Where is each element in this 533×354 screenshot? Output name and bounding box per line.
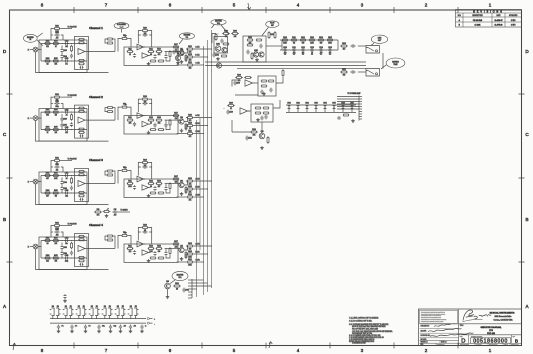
svg-text:CR31: CR31 [296,102,300,104]
wire mid risers [61,46,63,49]
svg-text:.047: .047 [114,215,117,217]
svg-text:C301: C301 [185,290,189,292]
wire send 1 [184,118,187,122]
svg-text:LINE: LINE [378,38,382,40]
svg-text:NOTES: UNLESS OTHERWISE NOTED: NOTES: UNLESS OTHERWISE NOTED [349,341,374,343]
svg-text:2K2: 2K2 [189,59,192,61]
capacitor C51 [70,325,73,330]
capacitor C231 [269,88,272,93]
svg-text:.022: .022 [123,326,126,328]
callout pointer lines [37,33,43,37]
input callout oval INPUT 1 [23,34,37,42]
op-amp stage box U1A [75,37,89,70]
stray pen mark top [248,3,252,10]
resistor R90 [181,48,183,49]
svg-text:22K: 22K [189,183,192,185]
resistor R235 [267,80,270,82]
ground G202 [255,58,259,61]
signature scribble 1 [434,324,451,326]
svg-text:47K: 47K [189,199,192,201]
title box divider [459,323,522,325]
svg-text:47u: 47u [88,326,90,328]
resistor R418 [185,251,187,252]
svg-text:J51: J51 [70,306,72,308]
svg-text:TO FOOTSW: TO FOOTSW [68,224,78,226]
svg-text:.022: .022 [65,46,68,48]
wire stage1 to stage2 [87,119,115,121]
capacitor C50 [57,325,60,330]
wire pot left [118,171,121,184]
svg-text:THE REQUIRED PORTIONS INFORMAT: THE REQUIRED PORTIONS INFORMATION OF [421,310,445,313]
wire stack mid [51,103,53,105]
svg-text:4K7: 4K7 [46,178,49,180]
ground G90 [176,61,180,64]
capacitor C220 [350,44,355,47]
ground G80 [105,214,109,217]
jack pair J43 [89,308,93,316]
capacitor C306 [80,198,84,201]
svg-text:C405: C405 [65,255,69,257]
wire stage1 to stage2 [87,51,115,53]
svg-text:REVISIONS: REVISIONS [473,12,504,14]
svg-text:B-CH1: B-CH1 [195,55,199,57]
svg-text:Channel 2: Channel 2 [89,95,103,99]
transistor Q201b [222,47,227,52]
svg-text:10K: 10K [54,63,57,65]
svg-text:SCA: SCA [458,14,461,17]
svg-text:IN: IN [28,50,30,52]
wire send 1 [184,246,187,250]
resistor R223 [106,111,109,113]
svg-text:DESCRIPTION: DESCRIPTION [472,15,482,17]
svg-text:1K: 1K [129,54,131,56]
capacitor C409 [153,251,156,256]
wire channel 1 send 1 to bus [194,48,212,50]
resistor R201 [215,33,217,34]
wire send 3 [177,64,187,66]
resistor R202b [222,43,225,45]
bus line 5 [199,118,201,250]
svg-text:DATE 2.2: DATE 2.2 [441,340,447,343]
wire stage2 internals [165,183,178,185]
transistor Q203 [216,63,221,68]
wire stack mid [51,166,53,168]
capacitor C55 [119,325,122,330]
resistor R309 [78,195,79,197]
jack pair J43 drops [91,316,93,319]
svg-text:100K: 100K [283,42,287,44]
op-amp U3B [137,176,144,182]
wire feedback cap [138,166,141,168]
wire pot right [128,39,131,48]
stray pen mark bottom middle [269,342,272,349]
bus bottom links [196,296,198,298]
wire to footswitch [61,225,72,227]
svg-text:22K: 22K [158,123,161,125]
resistor R208 [246,44,249,46]
wire jack2 [358,71,366,73]
svg-text:C-CH2: C-CH2 [195,131,199,133]
capacitor C54 [109,325,112,330]
svg-text:C403: C403 [63,247,67,249]
capacitor C53 [97,325,100,330]
svg-text:.047: .047 [56,38,59,40]
svg-text:C205: C205 [65,127,69,129]
jack pair J44 drops [104,316,106,319]
svg-text:1K: 1K [230,108,232,110]
capacitor C411 [70,251,73,256]
svg-text:2K2: 2K2 [46,46,49,48]
svg-text:A-CH3: A-CH3 [195,178,199,181]
ground G2 [180,192,184,195]
ground G52 [84,329,88,332]
op-amp U1C [142,53,149,58]
capacitor C111 [70,54,73,59]
wire feedback loop left [138,99,141,112]
resistor R243 [254,112,257,114]
oval FOOTSWITCH pointer [262,27,269,35]
svg-text:-: - [154,323,155,325]
op-amp stage box U4A [75,234,89,267]
capacitor C60 footswitch [63,294,66,299]
resistor R118 [185,54,187,55]
wire reverb row 2 [280,49,338,51]
svg-text:APPROVED BY:: APPROVED BY: [421,334,431,337]
diode CR31 [297,106,300,109]
svg-text:J52: J52 [83,306,85,308]
resistor R409 [78,260,79,262]
bottom row wire lower [50,322,146,324]
svg-text:7: 7 [105,3,108,8]
zone ticks left [7,94,13,262]
approved by row [420,332,459,334]
jack pair J46 drops [130,316,132,319]
wire send 3 [177,261,187,263]
ground G1 [147,259,151,262]
wire pot right [128,236,131,245]
svg-text:6: 6 [169,348,172,353]
svg-text:REV: REV [513,336,516,338]
svg-text:B: B [3,217,6,222]
diode CR30 [288,106,291,109]
reverb tank jack J22 [366,69,380,77]
wire mid risers [61,243,63,246]
wire row 2 [41,129,87,131]
output terminals [147,318,149,320]
long bus B [205,65,366,67]
svg-text:5: 5 [233,3,236,8]
junction dots [61,175,62,176]
wire feedback loop left [138,31,141,44]
svg-text:C404: C404 [63,253,67,255]
ground G1 [147,131,151,134]
wire input riser [40,44,42,62]
svg-text:4K7: 4K7 [158,186,161,188]
transistor Q202b [259,52,264,57]
fender logo underline [463,319,483,321]
svg-text:J44: J44 [104,306,106,308]
svg-text:J46: J46 [130,306,132,308]
svg-text:4: 4 [297,348,300,353]
svg-text:CR30: CR30 [287,102,291,104]
capacitor C211 [70,122,73,127]
ground G240 [256,118,260,121]
wire rows link [281,40,283,50]
svg-text:10K: 10K [175,181,178,183]
svg-text:REVERB: REVERB [392,62,399,64]
svg-text:DOCUMENTED TO OTHERS WITHOUT W: DOCUMENTED TO OTHERS WITHOUT WRITTEN [421,319,446,321]
svg-text:1M: 1M [46,243,49,245]
resistor R250 [342,114,345,116]
svg-text:2: 2 [425,348,428,353]
wire channel 4 send 3 to bus [194,261,204,263]
svg-text:C: C [3,132,7,137]
bottom row wire upper [50,318,146,320]
svg-text:47u: 47u [65,64,68,66]
svg-text:1: 1 [489,348,492,353]
jack pair J45 drops [117,316,119,319]
resistor R206 feedback [78,107,79,109]
svg-text:1M: 1M [55,115,58,117]
svg-text:5: 5 [233,348,236,353]
svg-text:C: C [525,132,529,137]
wire master [170,280,175,284]
drawn date row [420,339,459,341]
ground G201 [216,57,220,60]
wire channel 2 send 1 to bus [194,117,212,119]
svg-text:10-APR-88: 10-APR-88 [495,24,503,27]
jack pair J42 drops [78,316,80,319]
wire send 2 [185,254,187,259]
jack pair J45 [115,308,119,316]
resistor R242 [262,107,265,109]
op-amp U3C [142,185,149,190]
capacitor C308 [133,185,136,190]
svg-text:J56: J56 [135,306,137,308]
ground G56 [129,329,133,332]
svg-text:C103: C103 [63,50,67,52]
wire reverb send [177,49,179,55]
input jack J2 [33,116,38,121]
wire mixer [223,107,225,110]
svg-text:OUT: OUT [378,40,381,42]
wire interstage [105,39,107,43]
resistor R107 [78,42,79,44]
junction dots [61,112,62,113]
resistor R407 [78,239,79,241]
svg-text:C203: C203 [63,119,67,121]
wire recovery 2 [235,94,258,96]
svg-text:C W B: C W B [511,20,516,22]
capacitor C410 [164,251,167,256]
wire interstage [105,236,107,240]
svg-text:10n: 10n [65,243,68,245]
svg-text:C214: C214 [319,47,323,49]
diode CR33 [315,106,318,109]
tone stage box U4B [124,244,178,262]
capacitor C311 [70,186,73,191]
svg-text:2: 2 [425,3,428,8]
jack pair J46 [128,308,132,316]
wire feedback loop right [149,99,152,116]
wire row 1 [41,43,87,45]
svg-text:TO MAINS: TO MAINS [120,208,127,211]
resistor R323 [106,174,109,176]
wire row 1 [41,240,87,242]
svg-text:C104: C104 [63,56,67,58]
resistor R324 [71,177,73,178]
svg-text:SERVICE DIAGRAM,: SERVICE DIAGRAM, [481,326,502,329]
ground G250 [351,119,355,122]
resistor R322 [106,170,109,172]
capacitor C107 feedback [142,33,147,36]
release row [459,342,522,344]
svg-text:J40: J40 [52,306,54,308]
resistor R245 [267,136,269,137]
svg-text:C102: C102 [65,41,69,43]
wire stage2 internals [165,119,178,121]
resistor R306 feedback [78,171,79,173]
svg-text:.022: .022 [56,235,59,237]
svg-text:SW: SW [271,25,274,27]
wire stack right [61,167,63,172]
wire channel 1 send 2 to bus [194,56,208,58]
svg-text:47u: 47u [61,326,63,328]
svg-text:1K: 1K [55,46,57,48]
svg-text:C201: C201 [215,55,219,57]
wire stack left [51,29,53,41]
connector pin 4 [188,288,192,290]
svg-text:2K2: 2K2 [189,120,192,122]
revisions table frame [456,10,522,28]
wire stage2 to output [178,183,180,185]
wire stack mid [51,34,53,36]
resistor R205 [255,39,258,41]
stray pen mark bottom left [13,343,17,350]
resistor R106 feedback [78,39,79,41]
jack pair J42 [76,308,80,316]
svg-text:C101: C101 [55,32,59,34]
svg-text:C204: C204 [63,125,67,127]
pot VR80 [104,211,109,213]
svg-text:1K: 1K [150,123,152,125]
wire power row bottom [286,112,356,114]
svg-text:C-CH3: C-CH3 [195,195,199,197]
svg-text:22K: 22K [175,118,178,120]
wire driver out [266,45,282,47]
size box [467,335,469,344]
wire feedback loop right [149,163,152,180]
svg-text:C105: C105 [65,58,69,60]
resistor R123 [106,42,109,44]
wire send 3 [177,196,187,198]
svg-text:1M: 1M [150,54,153,56]
channel 3 input EQ box [39,172,87,205]
resistor R116 [169,50,171,51]
resistor R422 [106,235,109,237]
svg-text:REVERB: REVERB [184,35,191,37]
svg-text:FILE: FILE [421,344,424,346]
svg-text:6: 6 [169,3,172,8]
capacitor C57 [140,325,143,330]
svg-text:B-CH4: B-CH4 [195,252,199,254]
resistor R423 [106,239,109,241]
svg-text:C211: C211 [292,47,296,49]
svg-text:2K2: 2K2 [238,80,241,82]
connector pin 7 [188,297,192,299]
svg-text:10K: 10K [234,36,237,38]
svg-text:CI 1281: CI 1281 [475,25,481,27]
capacitor C56 [129,325,132,330]
svg-text:1u: 1u [145,326,147,328]
svg-text:MUSICAL INSTRUMENTS: MUSICAL INSTRUMENTS [490,311,515,314]
wire feedback cap [138,34,141,36]
zone ticks bottom [74,343,458,349]
svg-text:B: B [459,25,461,27]
wires connector to bus [192,279,204,281]
svg-text:MASTER: MASTER [215,20,222,23]
svg-text:J50: J50 [57,306,59,308]
capacitor C406 [80,263,84,266]
svg-text:22K: 22K [129,123,132,125]
op-amp U1B [137,44,144,50]
wire stack mid [51,231,53,233]
capacitor C232 [260,90,263,95]
svg-text:7. ALL LEVEL CONTROLS SET TO M: 7. ALL LEVEL CONTROLS SET TO MAXIMUM. [349,317,379,320]
channel 1 input EQ box [39,40,87,73]
wire channel 3 send 1 to bus [194,180,212,182]
svg-text:1K: 1K [47,132,49,134]
ground G50 [57,329,61,332]
resistor R231 [244,77,246,79]
svg-text:IN: IN [28,182,30,184]
svg-text:10K: 10K [54,243,57,245]
svg-text:CONFIDENCE FOR REFERENCE ONLY: CONFIDENCE FOR REFERENCE ONLY [421,317,441,319]
long bus A [205,61,366,63]
bus line 1 [203,46,205,295]
bus line 2 [207,40,209,292]
capacitor C209 [153,123,156,128]
svg-text:A: A [525,304,529,309]
wire stage2 internals [165,248,178,250]
long bus C [237,67,366,69]
op-amp U1A [78,49,85,55]
svg-text:22K: 22K [46,260,49,262]
svg-text:100p: 100p [55,106,59,108]
wire input riser [40,176,42,194]
svg-text:680: 680 [343,74,346,76]
diode CR32 [306,106,309,109]
svg-text:A-CH4: A-CH4 [195,243,199,246]
wire interstage [105,108,107,112]
wire stack right [61,104,63,109]
svg-text:10-AUG-87: 10-AUG-87 [494,19,502,22]
capacitor C106 [80,66,84,69]
input jack J1 [33,47,38,52]
svg-text:680: 680 [158,251,161,253]
jack pair J44 [102,308,106,316]
wire stack left [51,226,53,238]
svg-text:1: 1 [489,3,492,8]
svg-text:C212: C212 [301,47,305,49]
zone ticks top [74,7,458,13]
svg-text:680: 680 [320,42,323,44]
resistor R122 [106,38,109,40]
svg-text:TO FOOTSW: TO FOOTSW [68,159,78,161]
op-amp U4A [78,246,85,252]
svg-text:VOL: VOL [217,23,220,25]
svg-text:C215: C215 [328,47,332,49]
